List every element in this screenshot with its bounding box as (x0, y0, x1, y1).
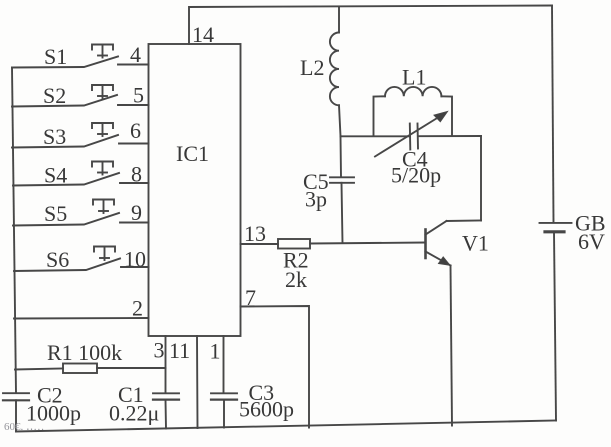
svg-text:60€. ‥…: 60€. ‥… (4, 421, 44, 433)
label V1 (462, 231, 489, 256)
pin 13 (244, 221, 266, 246)
pin 1 (210, 339, 221, 364)
switch S3 (12, 123, 149, 148)
pin 6 (130, 118, 141, 143)
svg-text:S3: S3 (43, 124, 66, 149)
resistor R2 (278, 239, 425, 249)
wire pin 2 (14, 317, 149, 320)
svg-text:13: 13 (244, 221, 266, 246)
capacitor C5 (330, 136, 354, 243)
label IC1 (176, 141, 209, 166)
inductor L1 (374, 87, 453, 136)
wire pin 1 / C3 branch vertical (223, 336, 226, 428)
label C2 value (26, 383, 81, 426)
label S5 (44, 201, 67, 226)
label R2 value (283, 248, 309, 293)
svg-text:S6: S6 (46, 247, 69, 272)
capacitor C3 (211, 393, 237, 399)
svg-text:S1: S1 (44, 44, 67, 69)
switch S4 (13, 162, 149, 186)
svg-text:3: 3 (154, 338, 165, 363)
pin 7 (245, 285, 256, 310)
switch S5 (13, 200, 149, 226)
wire top rail from pin14 to right rail (189, 6, 552, 45)
svg-text:9: 9 (131, 200, 142, 225)
wire pin 7 down to bottom rail (241, 306, 310, 428)
pin 10 (124, 247, 146, 272)
label S1 (44, 44, 67, 69)
svg-text:8: 8 (131, 162, 142, 187)
wire pin 13 to R2 (241, 243, 279, 245)
svg-text:5: 5 (133, 83, 144, 108)
label S4 (44, 163, 67, 188)
svg-text:S5: S5 (44, 201, 67, 226)
wire pin 3 / C1 branch vertical (165, 336, 168, 429)
wire left rail (S1 row down to bottom rail) (12, 68, 16, 394)
label L2 (300, 55, 324, 80)
inductor L2 (330, 7, 341, 137)
switch S6 (14, 247, 149, 272)
svg-text:L1: L1 (402, 65, 426, 90)
svg-text:R1 100k: R1 100k (47, 340, 122, 365)
pin 4 (130, 42, 141, 67)
svg-text:14: 14 (192, 22, 214, 47)
label GB 6V (575, 211, 606, 255)
svg-text:2: 2 (132, 296, 143, 321)
capacitor C1 (153, 393, 179, 399)
svg-text:6: 6 (130, 118, 141, 143)
svg-text:5600p: 5600p (239, 397, 294, 422)
capacitor C2 (3, 393, 29, 431)
watermark (4, 421, 44, 433)
switch S1 (12, 45, 149, 68)
pin 8 (131, 162, 142, 187)
svg-text:0.22μ: 0.22μ (109, 401, 159, 426)
pin 5 (133, 83, 144, 108)
svg-text:S4: S4 (44, 163, 67, 188)
svg-text:10: 10 (124, 247, 146, 272)
svg-text:6V: 6V (578, 229, 605, 254)
wire tank node row (L2/C5 node to collector feed) (341, 135, 482, 137)
label C4 5/20p (391, 147, 441, 188)
svg-text:1: 1 (210, 339, 221, 364)
svg-text:V1: V1 (462, 231, 489, 256)
label C5 3p (303, 169, 329, 212)
svg-text:11: 11 (169, 338, 190, 363)
resistor R1 (15, 364, 166, 374)
svg-text:2k: 2k (285, 267, 307, 292)
label C3 value (239, 380, 294, 422)
svg-text:IC1: IC1 (176, 141, 209, 166)
svg-text:L2: L2 (300, 55, 324, 80)
wire right rail upper (top rail to battery +) (552, 6, 554, 223)
label L1 (402, 65, 426, 90)
svg-text:S2: S2 (43, 83, 66, 108)
svg-text:4: 4 (130, 42, 141, 67)
label R1 value (47, 340, 122, 365)
label S2 (43, 83, 66, 108)
variable capacitor C4 (375, 112, 448, 157)
label S3 (43, 124, 66, 149)
pin 2 (132, 296, 143, 321)
battery GB (540, 223, 572, 421)
svg-text:5/20p: 5/20p (391, 163, 441, 188)
transistor V1 (426, 136, 482, 426)
svg-text:7: 7 (245, 285, 256, 310)
label S6 (46, 247, 69, 272)
pin 3 (154, 338, 165, 363)
pin 14 (192, 22, 214, 47)
switch S2 (12, 85, 149, 107)
pin 9 (131, 200, 142, 225)
pin 11 (169, 338, 190, 363)
wire bottom rail (16, 421, 556, 432)
wire pin 11 vertical (196, 336, 199, 428)
label C1 value (109, 382, 159, 426)
svg-text:3p: 3p (305, 187, 327, 212)
IC U1 box (149, 44, 241, 336)
